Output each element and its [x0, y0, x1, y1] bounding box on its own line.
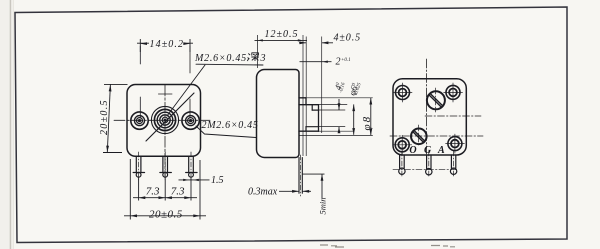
- svg-text:1.5: 1.5: [211, 175, 224, 186]
- dim 12+-0.5: [255, 39, 308, 41]
- side arrows: [258, 39, 373, 192]
- svg-text:2M2.6×0.45: 2M2.6×0.45: [202, 120, 259, 131]
- svg-text:5min: 5min: [318, 198, 328, 215]
- front body outline: [127, 85, 201, 157]
- FRONT VIEW DIMENSIONS: [103, 39, 210, 220]
- front vertical centerline: [164, 85, 166, 178]
- hole BR: [446, 134, 465, 153]
- SIDE VIEW DIMENSIONS: [255, 35, 371, 198]
- side pin: [299, 158, 302, 194]
- shaft top line: [299, 104, 319, 106]
- back horizontal centerline upper: [425, 115, 481, 117]
- right mounting hole: [182, 112, 199, 129]
- svg-text:A: A: [437, 145, 445, 156]
- collar face lower: [305, 127, 307, 132]
- top screw: [427, 88, 445, 112]
- leader 2M2.6 from right hole: [196, 126, 256, 138]
- svg-text:φ8: φ8: [361, 115, 373, 131]
- center screw: [411, 125, 427, 147]
- dim 20+-0.5 bottom: [124, 215, 206, 217]
- back body outline: [393, 79, 466, 155]
- shaft top witness extension: [319, 104, 348, 106]
- shaft collar top: [299, 97, 306, 99]
- svg-text:G: G: [424, 145, 432, 156]
- shaft end face: [318, 105, 320, 132]
- leader 1.5: [179, 179, 210, 181]
- dim 4+-0.5: [299, 42, 333, 44]
- hole TL: [393, 83, 412, 102]
- dim 2+0.1: [300, 61, 332, 63]
- back horizontal centerline through screw: [390, 135, 483, 137]
- hole BL: [393, 135, 412, 154]
- side dim texts: [248, 29, 373, 215]
- side body outline: [257, 70, 300, 158]
- back pin centerlines: [402, 151, 454, 177]
- svg-text:M2.6×0.45: M2.6×0.45: [194, 53, 247, 64]
- SIDE VIEW: [257, 70, 373, 197]
- dim 20+-0.5 left: [107, 84, 110, 152]
- hole TR: [444, 83, 463, 102]
- front horizontal centerline: [114, 119, 210, 121]
- BACK VIEW: [390, 59, 483, 177]
- leader line M2.6 depth3: [196, 63, 263, 66]
- witness line over left hole: [139, 46, 141, 118]
- side pin centerline: [300, 155, 302, 196]
- dim 5min: [303, 173, 325, 175]
- glyph shen (depth): [247, 53, 259, 61]
- back pins: [399, 155, 457, 175]
- witness line over right hole: [189, 46, 191, 118]
- collar bottom witness line: [299, 134, 373, 136]
- slot bottom witness extension: [319, 126, 346, 128]
- slot bottom line: [306, 126, 319, 128]
- svg-text:7.3: 7.3: [171, 186, 185, 198]
- svg-text:3: 3: [260, 53, 266, 64]
- collar face upper: [305, 98, 307, 105]
- dim 7.3 7.3: [133, 197, 197, 199]
- dim 0.3max leaders: [279, 190, 311, 192]
- svg-text:14±0.2: 14±0.2: [150, 39, 185, 50]
- slot step vertical: [311, 105, 313, 110]
- svg-text:4±0.5: 4±0.5: [334, 33, 362, 44]
- front arrows: [106, 42, 200, 217]
- slot top line: [312, 109, 318, 111]
- front dim texts: [99, 39, 259, 221]
- dim phi8: [370, 98, 372, 136]
- terminal letters: [409, 145, 445, 156]
- page left margin strip: [0, 0, 10, 249]
- pin centerlines: [139, 152, 191, 180]
- pin tip row dash line: [393, 169, 458, 171]
- dim 14+-0.2 line: [137, 42, 193, 44]
- rotor slot line 45deg: [146, 93, 194, 141]
- slot top witness extension: [319, 109, 346, 111]
- faint page footer marks: [320, 245, 455, 247]
- collar top witness line: [306, 97, 373, 99]
- back vertical centerline: [426, 59, 428, 154]
- dim 4-0.16: [338, 99, 340, 133]
- page spine edge line: [10, 0, 12, 249]
- svg-text:12±0.5: 12±0.5: [265, 29, 299, 40]
- dim phi6: [353, 104, 355, 134]
- svg-text:0.3max: 0.3max: [248, 187, 278, 198]
- center rotor circles: [151, 106, 178, 133]
- svg-text:20±0.5: 20±0.5: [99, 99, 110, 135]
- svg-text:O: O: [409, 145, 416, 156]
- shaft bottom witness extension: [319, 130, 355, 132]
- svg-text:7.3: 7.3: [146, 186, 160, 198]
- shaft bottom line: [299, 130, 319, 132]
- left mounting hole: [131, 112, 148, 129]
- svg-text:20±0.5: 20±0.5: [149, 208, 183, 220]
- front pins: [133, 156, 197, 177]
